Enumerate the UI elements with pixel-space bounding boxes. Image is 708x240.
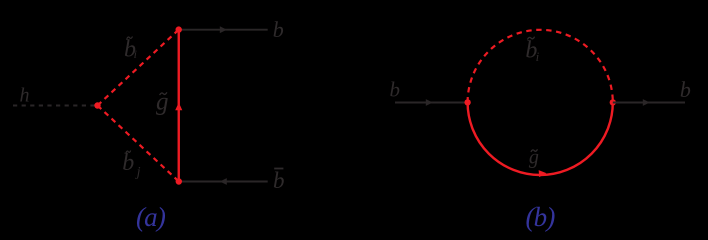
b quark incoming (left) xyxy=(395,102,468,104)
label gluino tilde xyxy=(160,92,167,95)
svg-text:b: b xyxy=(390,77,401,101)
vertex left (a) xyxy=(94,102,100,108)
svg-text:(b): (b) xyxy=(525,202,555,232)
svg-text:g: g xyxy=(156,88,169,115)
svg-text:b: b xyxy=(680,77,691,102)
label sbottom_j tilde xyxy=(126,151,131,153)
arrow bbar (left) xyxy=(220,178,227,185)
gluino arrow (up) xyxy=(175,103,182,111)
vertex bottom (a) xyxy=(176,178,182,184)
sbottom_i propagator (dashed red upper semicircle) xyxy=(468,30,613,103)
svg-text:i: i xyxy=(536,49,540,64)
label sbottom_i tilde xyxy=(127,37,133,39)
label gluino tilde (b) xyxy=(531,149,538,152)
gluino arrow on arc (right) xyxy=(539,170,547,177)
b quark outgoing (right) xyxy=(613,102,685,104)
arrow b outgoing (right) xyxy=(220,26,227,33)
higgs propagator h (dashed) xyxy=(13,105,96,107)
sbottom_i propagator (dashed red, left vertex to top vertex) xyxy=(98,30,179,106)
vertex right (b) xyxy=(610,99,616,105)
b quark outgoing (top right) xyxy=(179,29,268,31)
svg-text:i: i xyxy=(134,47,137,61)
vertex left (b) xyxy=(464,99,470,105)
sbottom_j propagator (dashed red, left vertex to bottom vertex) xyxy=(98,106,179,182)
label sbottom_i tilde (b) xyxy=(527,37,534,40)
gluino propagator (solid red vertical) xyxy=(178,30,180,182)
svg-text:b: b xyxy=(273,17,284,42)
svg-text:b: b xyxy=(273,168,285,193)
gluino propagator (solid red lower semicircle) xyxy=(468,102,613,175)
bbar quark (bottom right) xyxy=(179,181,268,183)
svg-text:h: h xyxy=(20,85,30,107)
vertex top (a) xyxy=(176,26,182,32)
arrow b incoming (right) xyxy=(426,99,433,106)
arrow b outgoing right xyxy=(643,99,650,106)
label bbar overline xyxy=(274,168,283,170)
svg-text:g: g xyxy=(529,146,539,168)
svg-text:b: b xyxy=(122,150,134,176)
svg-text:(a): (a) xyxy=(136,202,166,232)
